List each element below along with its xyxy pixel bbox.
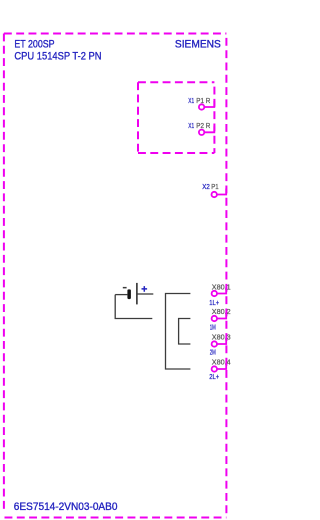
wire: battery minus lead bbox=[115, 294, 127, 296]
article number 6ES7514-2VN03-0AB0 bbox=[14, 501, 118, 513]
port X1 P1 R bbox=[188, 98, 214, 110]
port X2 P1 bbox=[202, 184, 226, 197]
wire: inner bracket 1M/2M bbox=[179, 319, 191, 345]
battery negative plate bbox=[127, 289, 130, 299]
battery plus sign bbox=[142, 286, 148, 292]
wire: battery plus lead bbox=[138, 293, 154, 295]
svg-text:2M: 2M bbox=[210, 350, 216, 357]
wire: minus drop and bottom run to 1M row bbox=[115, 295, 152, 319]
battery positive plate bbox=[136, 283, 137, 305]
svg-text:2L+: 2L+ bbox=[209, 374, 219, 381]
wire: outer bracket 1L+/2L+ bbox=[166, 294, 191, 370]
svg-text:X2: X2 bbox=[202, 184, 210, 191]
svg-text:P1: P1 bbox=[211, 184, 218, 191]
svg-text:SIEMENS: SIEMENS bbox=[175, 39, 221, 51]
port X80.2 (1M) bbox=[210, 309, 231, 331]
device name ET 200SP / CPU 1514SP T-2 PN bbox=[14, 38, 101, 62]
manufacturer SIEMENS bbox=[175, 39, 221, 51]
svg-text:1M: 1M bbox=[210, 325, 216, 332]
svg-text:6ES7514-2VN03-0AB0: 6ES7514-2VN03-0AB0 bbox=[14, 501, 118, 513]
battery minus sign bbox=[123, 287, 127, 289]
svg-text:X1: X1 bbox=[188, 98, 194, 105]
port X80.3 (2M) bbox=[210, 335, 231, 357]
port X80.1 (1L+) bbox=[209, 284, 230, 307]
battery G1 (24 V source) bbox=[123, 283, 147, 305]
svg-text:ET 200SP: ET 200SP bbox=[14, 38, 54, 50]
svg-text:X1: X1 bbox=[188, 123, 194, 130]
svg-text:1L+: 1L+ bbox=[209, 300, 219, 307]
PROFINET interface box (dashed) bbox=[138, 82, 214, 153]
port X1 P2 R bbox=[188, 123, 214, 135]
port X80.4 (2L+) bbox=[209, 360, 230, 381]
outer macro box (dashed) bbox=[4, 34, 227, 518]
svg-text:CPU 1514SP T-2 PN: CPU 1514SP T-2 PN bbox=[14, 50, 101, 62]
